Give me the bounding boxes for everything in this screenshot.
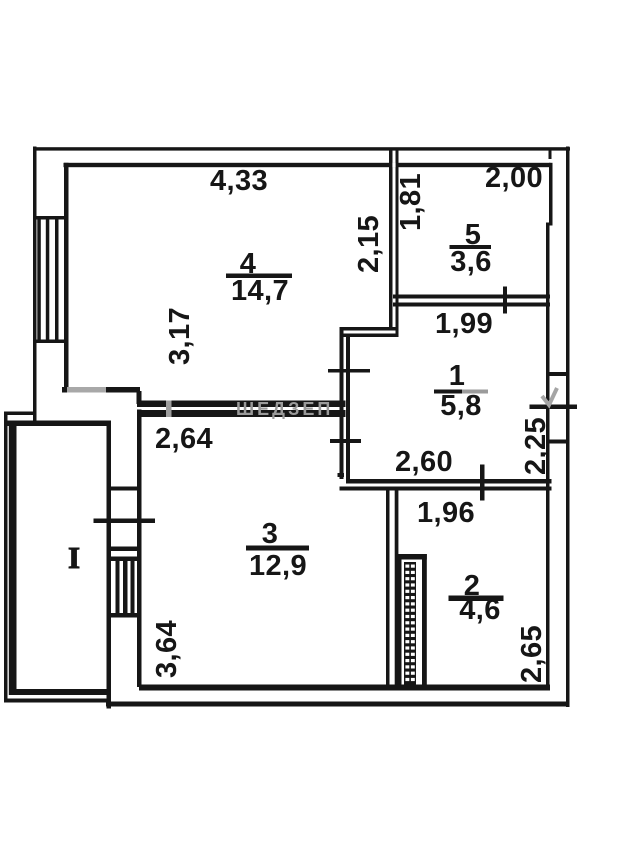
white gap in inner top wall at partition	[392, 163, 395, 168]
wall inner bottom	[139, 685, 550, 691]
fraction line room1	[434, 390, 488, 394]
balcony thin outer top	[4, 412, 36, 416]
svg-text:4,33: 4,33	[210, 165, 268, 197]
partition rooms 4|5 left line	[389, 150, 393, 330]
svg-text:3: 3	[262, 518, 279, 550]
room4 bottom wall grey watermarked segment	[67, 387, 106, 393]
corridor wall band 2	[137, 410, 346, 417]
window W1 glass line a	[37, 220, 41, 340]
svg-text:2,15: 2,15	[353, 215, 385, 273]
svg-text:3,64: 3,64	[151, 620, 183, 678]
wall inner right jog	[546, 223, 553, 226]
svg-text:ШЕДЗЕП: ШЕДЗЕП	[236, 399, 333, 419]
tick T4 on room1 bottom wall	[480, 465, 485, 501]
room1 bottom wall line 2	[340, 487, 552, 491]
shaft right edge	[422, 554, 427, 686]
window W2 glass line b	[123, 561, 128, 613]
crossing C2 right wall	[549, 440, 567, 444]
stub S2	[338, 473, 345, 477]
svg-text:1,96: 1,96	[417, 497, 475, 529]
room1 bottom wall line 1	[346, 479, 552, 484]
wall inner right upper	[549, 163, 553, 226]
fraction line room2	[449, 596, 504, 602]
window W1 bottom sill	[33, 340, 69, 344]
step room4/room3	[137, 391, 142, 404]
tick T2 on room1 left wall upper	[328, 369, 370, 373]
wall room5|room1 line 1	[393, 295, 550, 299]
svg-text:I: I	[68, 540, 80, 575]
svg-text:12,9: 12,9	[249, 550, 307, 582]
tick T1 on room5 wall	[503, 287, 507, 314]
svg-text:2,60: 2,60	[395, 446, 453, 478]
room1 left wall line 1	[340, 327, 344, 479]
wall inner top	[64, 163, 551, 167]
svg-text:2,65: 2,65	[516, 625, 548, 683]
partition rooms 3|2 right line	[395, 487, 399, 686]
window W2 top sill	[107, 557, 142, 562]
balcony thin outer bottom	[4, 699, 107, 703]
balcony thick top	[8, 421, 108, 427]
fraction line room5	[450, 245, 492, 249]
svg-text:4,6: 4,6	[459, 594, 501, 626]
tick T3 on room1 left wall lower	[330, 439, 361, 443]
window W2 glass line a	[116, 561, 120, 613]
fraction line room3	[246, 546, 309, 551]
svg-text:5,8: 5,8	[440, 390, 482, 422]
svg-text:14,7: 14,7	[231, 275, 289, 307]
svg-text:3,6: 3,6	[450, 246, 492, 278]
balcony thick bottom	[10, 689, 108, 695]
shaft cap	[398, 554, 427, 560]
svg-text:3,17: 3,17	[164, 307, 196, 365]
balcony thin outer left	[4, 412, 8, 703]
watermark grey letter	[166, 401, 172, 418]
shaft hatch	[404, 562, 416, 685]
window W2 bottom sill	[107, 613, 142, 618]
wall outer left	[33, 147, 37, 422]
balcony wall V2	[137, 410, 142, 688]
window W1 top sill	[33, 216, 69, 220]
svg-text:1: 1	[449, 360, 466, 392]
window W1 glass line c	[55, 220, 59, 340]
turn wall line 2	[340, 334, 399, 338]
wall outer right	[566, 147, 570, 708]
wall outer top	[33, 147, 570, 150]
turn wall line 1	[340, 327, 399, 331]
watermark grey on fraction line	[462, 390, 488, 394]
svg-text:1,81: 1,81	[395, 173, 427, 231]
wall inner right lower	[546, 226, 550, 690]
partition rooms 3|2 left line	[386, 487, 390, 686]
balcony door top crossing	[107, 487, 142, 491]
stub top-right	[549, 150, 552, 159]
crossing C1 right wall	[549, 372, 569, 376]
svg-text:2,64: 2,64	[155, 423, 213, 455]
tick T5 on right wall	[530, 405, 578, 410]
room4 bottom wall left segment	[62, 387, 67, 393]
svg-text:1,99: 1,99	[435, 308, 493, 340]
svg-text:2,00: 2,00	[485, 162, 543, 194]
balcony thick left	[9, 421, 17, 696]
corridor wall band 1	[137, 401, 346, 408]
window W1 glass line b	[46, 220, 50, 340]
wall room5|room1 line 2	[393, 303, 550, 307]
wall inner left	[64, 163, 69, 392]
tick T6 on balcony wall	[94, 519, 156, 524]
balcony door bottom crossing	[107, 547, 142, 552]
room4 bottom wall right segment	[106, 387, 140, 393]
room1 left wall line 2	[346, 334, 350, 484]
fraction line room4	[226, 274, 292, 279]
wall outer bottom	[106, 702, 570, 707]
partition rooms 4|5 right line	[396, 150, 399, 336]
shaft left edge	[398, 554, 402, 686]
window W2 glass line c	[131, 561, 135, 613]
balcony wall V1	[107, 421, 112, 709]
watermark grey mark	[542, 388, 557, 405]
svg-text:2,25: 2,25	[520, 417, 552, 475]
